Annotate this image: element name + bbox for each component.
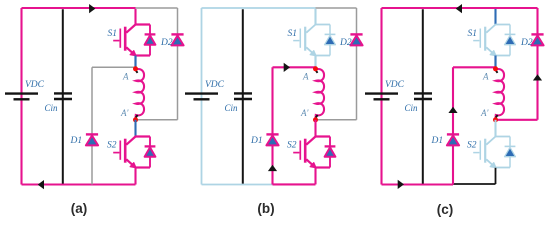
battery VDC (a) negative plate — [14, 98, 30, 100]
wire: S1 emitter stub to node A (a) — [134, 56, 136, 69]
diode of S1 (c) triangle — [505, 35, 516, 44]
inductor phase winding A-A' — [496, 69, 505, 118]
transistor S2 (b) emitter arrowhead — [310, 163, 316, 168]
svg-text:D2: D2 — [160, 38, 173, 48]
diode of S1 (b) top lead — [329, 25, 331, 35]
transistor S1 (b) emitter bar — [316, 55, 331, 57]
capacitor Cin (c) bottom plate — [414, 98, 432, 100]
wire: D1 branch vertical (b) — [271, 67, 273, 184]
current arrow above D1 (c) — [448, 107, 457, 113]
wire: D2 branch vertical (a) — [177, 8, 179, 120]
wire: top rail from S1 to D2 (b) — [316, 7, 357, 9]
diode of S1 (c) cathode bar — [505, 33, 516, 35]
transistor S1 (c) emitter bar — [496, 55, 511, 57]
current arrow on bottom rail (c) — [398, 180, 404, 189]
coil lead tick at node A — [496, 70, 498, 73]
diode of S2 (b) triangle — [325, 147, 336, 156]
transistor S2 (b) emitter bar — [316, 166, 331, 168]
transistor S1 (c) collector bar — [486, 25, 510, 33]
svg-text:D2: D2 — [339, 38, 352, 48]
svg-text:A': A' — [120, 108, 129, 118]
svg-text:VDC: VDC — [385, 80, 405, 90]
diode D2 (c) cathode bar — [531, 33, 543, 35]
transistor S2 (b) gate bar — [299, 141, 301, 160]
battery VDC (c) positive plate — [365, 92, 398, 94]
transistor S1 (b) emitter lead — [306, 47, 313, 53]
transistor S2 (a) gate lead — [113, 152, 119, 154]
diode of S2 (a) top lead — [149, 137, 151, 147]
transistor S2 (c) emitter lead — [486, 159, 493, 165]
diode D2 (b) cathode bar — [350, 33, 362, 35]
transistor S1 (c) body bar — [484, 27, 486, 51]
wire: freewheel bottom D1 to S2 (b) — [273, 183, 316, 185]
wire: top rail from VDC to S1 (c) — [382, 7, 496, 9]
diode of S1 (c) top lead — [509, 25, 511, 35]
transistor S2 (a) emitter bar — [136, 166, 151, 168]
current arrow below D2 (c) — [533, 74, 542, 80]
transistor S2 (c) collector bar — [486, 137, 510, 145]
svg-text:(b): (b) — [257, 201, 274, 216]
transistor S2 (b) gate lead — [293, 152, 299, 154]
transistor S2 (c) gate lead — [473, 152, 479, 154]
svg-text:S1: S1 — [288, 29, 298, 39]
battery VDC (b) negative plate — [194, 98, 210, 100]
transistor S2 (c) emitter bar — [496, 167, 511, 169]
wire: S1 emitter stub to node A (b) — [314, 56, 316, 69]
transistor S1 (a) body bar — [124, 27, 127, 51]
node A (b) — [313, 66, 318, 71]
transistor S1 (a) emitter arrowhead — [130, 51, 136, 56]
transistor S1 (b) collector bar — [306, 25, 330, 33]
transistor S1 (c) gate bar — [479, 29, 481, 48]
svg-text:S2: S2 — [107, 141, 117, 151]
transistor S2 (b) collector bar — [306, 137, 330, 145]
svg-text:D1: D1 — [250, 136, 263, 146]
wire: bottom rail left (c) — [382, 183, 454, 185]
capacitor Cin (c) top plate — [414, 92, 432, 94]
diode of S1 (a) top lead — [149, 25, 151, 35]
svg-text:VDC: VDC — [205, 80, 225, 90]
capacitor Cin (b) top plate — [234, 92, 252, 94]
diode of S1 (c) bottom lead — [509, 45, 511, 56]
transistor S1 (a) emitter bar — [136, 54, 151, 56]
diode of S1 (a) triangle — [145, 35, 156, 44]
svg-text:Cin: Cin — [405, 103, 419, 113]
wire: D1 branch horizontal to node A (b) — [273, 66, 316, 68]
node A (c) — [493, 66, 498, 71]
coil lead tick at node A — [316, 70, 318, 73]
wire: node A-prime to S2 collector stub (b) — [314, 120, 316, 137]
capacitor Cin (a) bottom plate — [54, 98, 72, 100]
wire: S1 collector stub (b) — [314, 9, 316, 25]
transistor S1 (c) gate lead — [473, 40, 479, 42]
diode D1 (c) cathode bar — [447, 133, 459, 135]
transistor S2 (a) emitter arrowhead — [130, 163, 136, 168]
diode of S2 (c) bottom lead — [509, 157, 511, 168]
diode of S1 (a) cathode bar — [145, 33, 156, 35]
diode D1 (b) triangle — [266, 136, 278, 146]
diode D2 (c) triangle — [531, 36, 543, 46]
transistor S1 (c) emitter lead — [486, 47, 493, 53]
wire: bottom S2 emitter to D1 branch (c) — [453, 183, 496, 185]
diode of S2 (a) cathode bar — [145, 145, 156, 147]
svg-text:Cin: Cin — [225, 103, 239, 113]
battery VDC (a) positive plate — [5, 92, 38, 94]
diode D1 (b) cathode bar — [266, 133, 278, 135]
transistor S2 (c) body bar — [484, 139, 486, 163]
svg-text:A': A' — [480, 108, 489, 118]
diode of S2 (b) cathode bar — [325, 145, 336, 147]
node A-prime (a) — [133, 117, 138, 122]
diode D2 (b) triangle — [350, 36, 362, 46]
diode of S2 (b) bottom lead — [329, 157, 331, 168]
svg-text:D1: D1 — [70, 136, 83, 146]
wire: D1 branch horizontal to node A (a) — [92, 66, 136, 68]
coil lead tick at node A-prime — [136, 115, 138, 118]
wire: S2 emitter stub to bottom rail (a) — [134, 168, 136, 185]
svg-text:(a): (a) — [71, 201, 88, 216]
svg-text:S1: S1 — [468, 29, 478, 39]
transistor S1 (a) gate lead — [113, 40, 119, 42]
wire: top rail from S1 to D2 (a) — [136, 7, 178, 9]
coil lead tick at node A-prime — [316, 115, 318, 118]
wire: D2 branch vertical (c) — [536, 8, 538, 120]
transistor S1 (b) gate lead — [293, 40, 299, 42]
svg-text:A': A' — [300, 108, 309, 118]
diode of S2 (c) triangle — [505, 147, 516, 156]
wire: DC bus left conductor (c) — [380, 8, 382, 185]
wire: D1 branch vertical (a) — [91, 67, 93, 184]
diode D1 (a) triangle — [86, 136, 98, 146]
diode D2 (a) cathode bar — [171, 33, 183, 35]
node A-prime (b) — [313, 117, 318, 122]
wire: top rail from S1 to D2 (c) — [496, 7, 538, 9]
transistor S1 (a) emitter lead — [126, 47, 133, 53]
diode D1 (a) cathode bar — [86, 133, 98, 135]
wire: D1 branch horizontal to node A (c) — [453, 66, 496, 68]
wire: S1 emitter stub to node A (c) — [494, 56, 496, 69]
transistor S2 (a) collector bar — [126, 137, 150, 145]
svg-text:S1: S1 — [108, 29, 118, 39]
transistor S2 (a) body bar — [124, 139, 127, 163]
wire: D1 branch vertical (c) — [452, 67, 454, 184]
wire: bottom rail (a) — [22, 183, 136, 185]
node A-prime (c) — [493, 117, 498, 122]
transistor S2 (a) gate bar — [119, 141, 121, 160]
diode of S2 (a) triangle — [145, 147, 156, 156]
diode of S2 (b) top lead — [329, 137, 331, 147]
current arrow below D1 (b) — [268, 165, 277, 171]
inductor phase winding A-A' — [316, 69, 325, 118]
battery VDC (b) positive plate — [185, 92, 218, 94]
current arrow into node A (b) — [284, 63, 290, 72]
wire: D2 branch horizontal to node A-prime (b) — [316, 119, 357, 121]
wire: node A-prime to S2 collector stub (c) — [494, 120, 496, 137]
current arrow on top rail (c) — [456, 4, 462, 13]
wire: S2 emitter stub down (c) — [495, 168, 497, 184]
wire: D2 branch horizontal to node A-prime (a) — [136, 119, 178, 121]
svg-text:D1: D1 — [431, 136, 444, 146]
transistor S1 (b) body bar — [304, 27, 306, 51]
svg-text:(c): (c) — [437, 202, 454, 217]
diode of S2 (c) top lead — [509, 137, 511, 147]
wire: top rail from VDC to S1 (b) — [202, 7, 316, 9]
svg-text:VDC: VDC — [25, 80, 45, 90]
wire: Cin branch (a) — [62, 9, 64, 183]
inductor phase winding A-A' — [136, 69, 145, 118]
node A (a) — [133, 66, 138, 71]
diode of S2 (a) bottom lead — [149, 157, 151, 168]
transistor S1 (b) emitter arrowhead — [310, 51, 316, 56]
svg-text:S2: S2 — [467, 141, 477, 151]
wire: Cin branch (c) — [422, 9, 424, 183]
transistor S2 (b) body bar — [304, 139, 307, 163]
diode of S2 (c) cathode bar — [505, 145, 516, 147]
diode D2 (a) triangle — [171, 36, 183, 46]
transistor S1 (b) gate bar — [299, 29, 301, 48]
wire: D2 branch horizontal to node A-prime (c) — [496, 119, 538, 121]
diode D1 (c) triangle — [447, 136, 459, 146]
current arrow on bottom rail (a) — [38, 180, 44, 189]
svg-text:A: A — [482, 72, 489, 82]
svg-text:D2: D2 — [520, 38, 533, 48]
diode of S1 (b) triangle — [325, 35, 336, 44]
transistor S2 (a) emitter lead — [126, 159, 133, 165]
svg-text:S2: S2 — [287, 141, 297, 151]
wire: Cin branch (b) — [242, 9, 244, 183]
coil lead tick at node A — [136, 70, 138, 73]
transistor S1 (a) gate bar — [119, 29, 121, 48]
wire: top rail from VDC to S1 (a) — [22, 7, 136, 9]
transistor S1 (a) collector bar — [126, 25, 150, 33]
transistor S2 (c) gate bar — [479, 141, 481, 160]
transistor S2 (c) emitter arrowhead — [490, 163, 496, 168]
wire: DC bus left conductor (a) — [20, 8, 22, 185]
svg-text:Cin: Cin — [45, 103, 59, 113]
wire: node A-prime to S2 collector stub (a) — [134, 120, 136, 137]
diode of S1 (a) bottom lead — [149, 45, 151, 56]
current arrow on top rail (a) — [89, 4, 95, 13]
capacitor Cin (a) top plate — [54, 92, 72, 94]
transistor S2 (b) emitter lead — [306, 159, 313, 165]
coil lead tick at node A-prime — [496, 115, 498, 118]
svg-text:A: A — [302, 72, 309, 82]
wire: S1 collector stub (a) — [134, 9, 136, 25]
diode of S1 (b) bottom lead — [329, 45, 331, 56]
svg-text:A: A — [122, 72, 129, 82]
wire: D2 branch vertical (b) — [356, 8, 358, 120]
wire: S2 emitter stub to freewheel bottom (b) — [314, 168, 316, 185]
transistor S1 (c) emitter arrowhead — [490, 51, 496, 56]
battery VDC (c) negative plate — [374, 98, 390, 100]
capacitor Cin (b) bottom plate — [234, 98, 252, 100]
wire: bottom rail left (b) — [202, 184, 273, 186]
wire: S1 collector stub (c) — [494, 9, 496, 25]
wire: DC bus left conductor (b) — [201, 8, 203, 185]
diode of S1 (b) cathode bar — [325, 33, 336, 35]
